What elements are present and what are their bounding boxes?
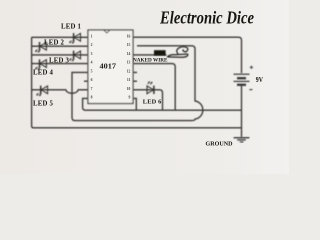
svg-text:GROUND: GROUND [206,140,233,147]
svg-text:NAKED WIRE: NAKED WIRE [133,57,168,63]
svg-text:4017: 4017 [100,64,117,71]
svg-text:9V: 9V [256,75,264,84]
svg-text:14: 14 [127,52,131,56]
svg-text:LED 6: LED 6 [143,99,162,106]
svg-text:6: 6 [91,78,93,82]
svg-text:15: 15 [127,43,131,47]
svg-text:13: 13 [127,61,131,65]
svg-text:1: 1 [91,34,93,38]
svg-text:LED 1: LED 1 [61,24,81,31]
svg-text:8: 8 [91,95,93,99]
svg-text:11: 11 [127,78,131,82]
svg-text:3: 3 [91,52,93,56]
svg-text:7: 7 [91,87,93,91]
svg-text:LED 4: LED 4 [33,70,53,77]
svg-text:LED 3: LED 3 [49,57,69,64]
svg-text:4: 4 [91,61,93,65]
svg-text:10: 10 [127,87,131,91]
svg-text:LED 5: LED 5 [33,101,53,108]
svg-text:2: 2 [91,43,93,47]
svg-text:9: 9 [129,95,131,99]
svg-text:LED 2: LED 2 [44,40,64,47]
svg-text:5: 5 [91,69,93,73]
svg-text:Electronic Dice: Electronic Dice [159,8,254,28]
svg-text:12: 12 [127,69,131,73]
svg-text:16: 16 [127,34,131,38]
